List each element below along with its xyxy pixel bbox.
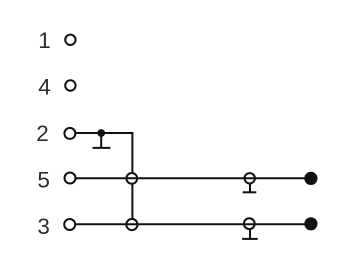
earth symbol row 3: bar [242,238,258,240]
filled terminal dot row 5 [304,172,317,185]
wire: row 2 horizontal [76,132,134,134]
junction dot on row 2 [97,129,105,137]
node: crossing circle on row 3 [126,219,137,230]
filled terminal dot row 3 [304,217,317,230]
earth symbol at row 2 junction: bar [93,147,111,149]
svg-text:5: 5 [37,168,50,193]
svg-text:2: 2 [36,121,49,146]
earth symbol at row 2 junction: stem [100,133,102,148]
pin 1 terminal circle [65,35,75,45]
pin 2 terminal circle [64,128,75,139]
earth symbol row 3: stem [249,229,251,239]
contact circle with earth on row 3 [244,218,255,229]
earth symbol row 5: bar [243,191,257,193]
node: crossing circle on row 5 [126,173,137,184]
wire: row 5 horizontal [76,177,311,179]
svg-text:3: 3 [37,214,50,239]
earth symbol row 5: stem [249,184,251,193]
pin 5 terminal circle [65,173,76,184]
pin 4 terminal circle [65,80,75,90]
wire: row 3 horizontal [76,223,311,225]
svg-text:1: 1 [38,28,51,53]
pin 3 terminal circle [64,219,75,230]
contact circle with earth on row 5 [245,173,255,183]
svg-text:4: 4 [38,74,51,99]
wire: vertical bus from pin2 corner down to pin3 row [131,133,133,224]
